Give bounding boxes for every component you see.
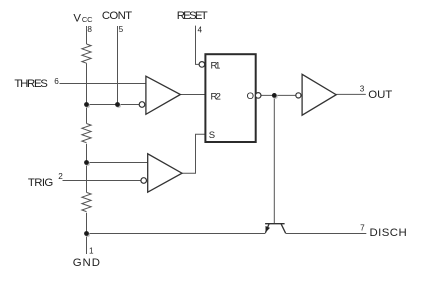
svg-text:RESET: RESET (177, 10, 208, 22)
svg-text:8: 8 (87, 25, 92, 34)
svg-text:S: S (209, 130, 215, 141)
svg-text:V: V (73, 12, 81, 24)
svg-text:CONT: CONT (102, 10, 132, 22)
svg-text:R2: R2 (211, 92, 221, 103)
svg-text:CC: CC (82, 15, 93, 24)
svg-text:1: 1 (89, 246, 94, 255)
svg-text:6: 6 (54, 77, 59, 86)
svg-text:2: 2 (58, 172, 63, 181)
svg-text:5: 5 (119, 25, 124, 34)
svg-text:4: 4 (198, 26, 203, 35)
svg-text:O: O (247, 91, 254, 102)
svg-text:DISCH: DISCH (370, 227, 407, 239)
svg-text:TRIG: TRIG (28, 177, 54, 189)
svg-text:R1: R1 (211, 60, 221, 71)
svg-text:GND: GND (73, 257, 100, 269)
svg-text:7: 7 (360, 224, 365, 233)
svg-text:THRES: THRES (14, 78, 48, 90)
svg-text:OUT: OUT (368, 89, 392, 101)
svg-text:3: 3 (360, 85, 365, 94)
